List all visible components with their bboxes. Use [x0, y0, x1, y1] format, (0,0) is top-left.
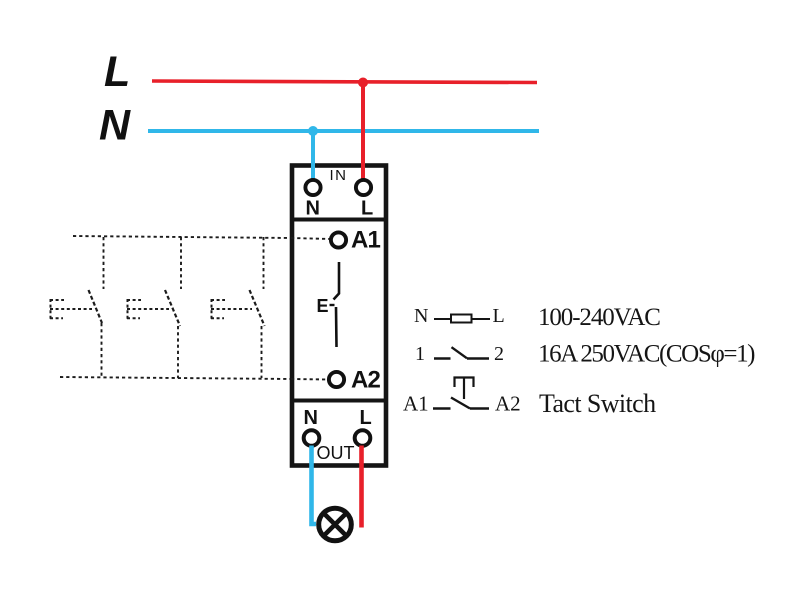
svg-text:Tact Switch: Tact Switch	[539, 389, 656, 418]
svg-text:A1: A1	[351, 227, 381, 254]
svg-text:E: E	[317, 296, 329, 316]
svg-text:A2: A2	[351, 367, 381, 394]
svg-text:IN: IN	[330, 167, 348, 184]
svg-text:16A 250VAC(COSφ=1): 16A 250VAC(COSφ=1)	[538, 341, 755, 368]
svg-text:L: L	[493, 305, 505, 327]
svg-text:N: N	[414, 305, 428, 327]
svg-text:L: L	[360, 407, 372, 429]
svg-text:100-240VAC: 100-240VAC	[538, 304, 660, 331]
svg-text:L: L	[361, 198, 373, 220]
svg-text:2: 2	[494, 343, 504, 365]
svg-text:N: N	[306, 198, 320, 220]
svg-text:OUT: OUT	[317, 443, 355, 463]
svg-text:N: N	[304, 407, 318, 429]
svg-text:1: 1	[415, 343, 425, 365]
svg-text:L: L	[104, 48, 130, 96]
svg-text:A2: A2	[495, 392, 521, 416]
svg-text:N: N	[99, 102, 131, 150]
svg-text:A1: A1	[403, 392, 429, 416]
